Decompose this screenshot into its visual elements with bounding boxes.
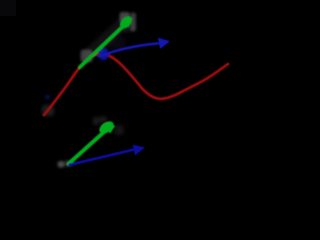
faint gray marks around lower green tip <box>93 117 99 125</box>
curve (dark red) <box>44 54 228 115</box>
lower tangent arrow (green) <box>69 132 105 164</box>
label P gray blob at upper point <box>81 50 93 63</box>
velocity vector arrow (blue) at upper point <box>99 43 158 56</box>
lower point marker gray <box>58 161 65 168</box>
blue label blob at vector start <box>98 48 108 60</box>
label gray blobs near green arrow tip <box>120 12 131 23</box>
faint corner patch <box>0 0 16 16</box>
faint labels near lower green tip <box>114 125 124 135</box>
faint gray halo along tangent arrow <box>89 21 126 55</box>
lower velocity arrow (blue) <box>70 150 134 165</box>
label gamma(t) near curve left end <box>42 105 54 116</box>
tangent vector arrow (green) at upper point <box>80 24 126 68</box>
small blue mark near curve left end <box>45 94 51 99</box>
